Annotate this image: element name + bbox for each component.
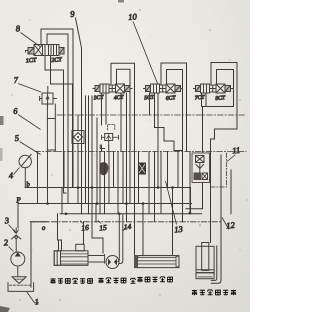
throttle assembly C3 (near 11) [192, 153, 210, 183]
wire: trunk x149.5 [149, 93, 151, 115]
node 5 leader [20, 142, 41, 155]
paper background [0, 0, 250, 312]
cylinder D (lift) [196, 243, 214, 279]
svg-text:8CT: 8CT [215, 95, 226, 102]
wire: trunk x121 [120, 93, 122, 152]
svg-text:2CT: 2CT [51, 57, 62, 64]
wire: G1 inner loop [117, 69, 131, 151]
node 1 leader [27, 292, 39, 303]
wire: cylA left feed jog [58, 214, 62, 251]
pilot valve C2 [100, 125, 118, 149]
wire: G2 outer loop [161, 63, 187, 152]
svg-text:6CT: 6CT [166, 95, 177, 102]
position box X [34, 45, 43, 56]
wire: G3 inner loop [217, 70, 234, 107]
svg-text:16: 16 [81, 223, 90, 233]
svg-text:4CT: 4CT [114, 95, 125, 102]
scan artifact: bottom-left corner [0, 306, 10, 312]
wire: valve8 inner loop [47, 34, 68, 204]
scan artifact: left edge faint [0, 148, 3, 161]
chain line: machine boundary mid [35, 151, 246, 153]
chinese caption: clamp cylinder [50, 278, 92, 284]
junction dots [46, 186, 191, 215]
wire: trunk x92 [91, 96, 93, 222]
motor B [106, 214, 123, 269]
svg-text:3: 3 [3, 215, 9, 225]
node 11 leader [227, 155, 235, 162]
node 15 leader [98, 221, 101, 224]
bus line b (y187.5) [25, 188, 191, 214]
chain line: vertical near 11 [210, 153, 227, 187]
wire: cylC right port [172, 188, 174, 256]
wire: valve8 port drop right [51, 56, 73, 188]
wire: trunk x85.5 [85, 96, 87, 204]
wire: right region verticals [189, 152, 191, 214]
node 10 leader [133, 22, 158, 84]
wire: cylA right port [84, 204, 104, 254]
svg-text:1CT: 1CT [26, 58, 37, 65]
node 7 leader [18, 84, 41, 93]
ink stamp blob 1 [99, 162, 108, 175]
wire: G1 outer loop [111, 63, 135, 151]
pump U2 [11, 252, 25, 277]
wire: motor right port [126, 204, 128, 222]
pressure gauge U4 [19, 154, 31, 187]
node 8 leader [21, 33, 41, 47]
node 13 leader [166, 181, 177, 225]
ink stamp blob 2 [138, 163, 146, 175]
chain line: lower boundary [30, 221, 221, 223]
wire: trunk x206 [205, 93, 207, 107]
wire: bus link x62 [61, 188, 63, 214]
scan speckles [8, 9, 248, 301]
wire: G1 port into pilot box [105, 93, 107, 124]
valve U8 (1CT/2CT solenoid valve) [26, 45, 65, 56]
node 16 leader [80, 221, 83, 224]
svg-text:5: 5 [14, 133, 19, 143]
chinese caption: lift cylinder [192, 290, 236, 296]
wire: trunk x97 [96, 118, 98, 204]
node 3 leader [9, 225, 16, 234]
wire: valve8 port drop left [45, 56, 66, 193]
node 2 leader [9, 247, 14, 252]
svg-text:12: 12 [226, 220, 236, 231]
solenoid 1CT [28, 48, 34, 55]
filter/check box C1 [72, 131, 84, 144]
bus line (y213) [60, 213, 202, 215]
wire: G2 inner loop [167, 70, 183, 222]
bus line P (y203.5) [18, 203, 192, 205]
reducing valve U7 [38, 87, 57, 204]
end box [51, 45, 59, 56]
wire: trunk x158 [157, 93, 159, 188]
cylinder A (clamp) [54, 244, 104, 265]
svg-text:10: 10 [128, 11, 138, 22]
svg-text:3CT: 3CT [93, 95, 105, 102]
svg-text:11: 11 [232, 145, 241, 156]
wire: below-chain bundle [64, 152, 73, 188]
chinese caption: motor [98, 278, 135, 284]
chain line: machine boundary upper [57, 114, 246, 116]
position box straight [43, 45, 52, 56]
svg-text:7CT: 7CT [195, 95, 206, 102]
tank U1 [8, 283, 34, 292]
check valve U3 [12, 228, 21, 252]
svg-text:5CT: 5CT [144, 95, 155, 102]
wire: G3 port drop [202, 93, 234, 107]
wire: cylC left port [142, 204, 144, 256]
scan artifact: left edge mark [0, 116, 4, 125]
node 14 leader [123, 227, 126, 232]
wire: pilot box outlet [108, 146, 110, 152]
wire: line 9 [76, 18, 82, 214]
node 4 leader [14, 168, 20, 175]
cylinder C (feed) [135, 256, 179, 268]
wire: filter trunk [77, 115, 79, 204]
wire: trunk x88.5 [88, 96, 90, 214]
wire: G3 outer loop [211, 63, 238, 204]
scan artifact: top mark [118, 0, 124, 3]
node 6 leader [18, 115, 41, 130]
solenoid 2CT [59, 48, 64, 55]
svg-text:15: 15 [99, 223, 108, 233]
wire: trunk x202.5 [202, 107, 204, 153]
strainer [12, 277, 26, 284]
wire: G2 staircase [155, 93, 183, 151]
wire: trunk x126.5 [126, 93, 128, 204]
wire: trunk x101.5 below G1 [101, 93, 103, 152]
valve U-7CT/8CT [194, 84, 233, 93]
wire: valve8 outer loop [41, 29, 73, 188]
wire: return drop to tank [30, 222, 32, 287]
wire: pump riser P [17, 204, 19, 229]
svg-text:1: 1 [34, 297, 39, 306]
return line o segment [31, 221, 48, 223]
valve U-3CT/4CT [93, 84, 132, 93]
chinese caption: feed cylinder [137, 277, 172, 283]
svg-text:14: 14 [123, 222, 132, 232]
svg-text:13: 13 [174, 224, 183, 235]
valve U-5CT/6CT [144, 84, 183, 93]
node 12 leader [222, 218, 229, 230]
